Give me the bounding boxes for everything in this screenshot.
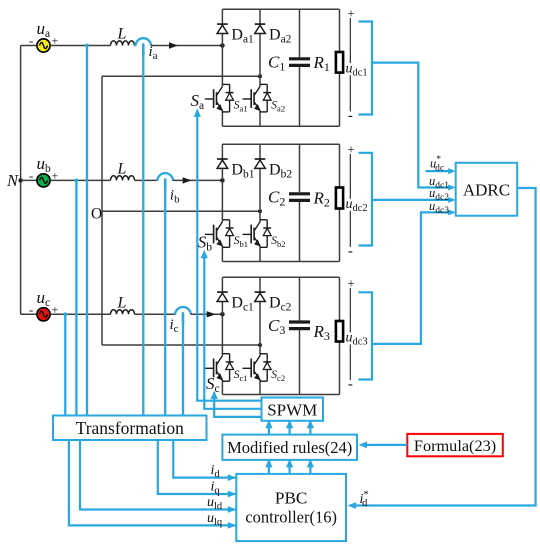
current sensor ia <box>135 38 151 53</box>
node O junction bridge c <box>258 343 262 347</box>
arrow ic into Transformation <box>179 415 186 424</box>
wire source ub left lead <box>21 179 37 181</box>
wire ua measurement to Transformation <box>86 46 88 415</box>
node phase c to leg junction <box>220 312 225 317</box>
wire uc measurement to Transformation <box>64 314 66 414</box>
wire PBC to Modified rules <box>268 460 270 474</box>
bridge 1 top rail <box>222 8 339 10</box>
arrow gate Sa <box>194 108 201 117</box>
wire PBC to Modified rules <box>289 460 291 474</box>
wire Modified rules to SPWM <box>309 421 311 434</box>
svg-text:Formula(23): Formula(23) <box>414 436 496 455</box>
arrow id into PBC <box>228 474 237 481</box>
wire source ua left lead <box>21 45 37 47</box>
node O junction bridge b <box>258 209 262 213</box>
arrow u*dc into ADRC <box>448 168 456 174</box>
wire udc2 to ADRC <box>372 199 449 201</box>
arrow udc3 into ADRC <box>448 209 456 215</box>
wire udc3 to ADRC <box>372 212 449 344</box>
arrow ulq into PBC <box>228 522 237 529</box>
node ub voltage tap <box>75 179 79 183</box>
current sensor ib <box>157 173 173 188</box>
svg-text:L: L <box>117 294 127 311</box>
wire udc1 to ADRC <box>372 63 449 188</box>
svg-text:Modified rules(24): Modified rules(24) <box>227 438 352 457</box>
wire source ub to inductor <box>50 179 110 181</box>
arrow iq into PBC <box>228 491 237 498</box>
freewheel diode of Sb2 <box>260 220 271 248</box>
transistor Sc2 <box>243 356 261 381</box>
wire O to bridge c leg2 <box>102 344 260 346</box>
svg-text:ADRC: ADRC <box>463 180 510 199</box>
block SPWM <box>262 398 324 421</box>
AC source ub <box>37 174 50 187</box>
arrow i*d into PBC <box>348 502 357 509</box>
arrow phase b current direction <box>183 177 192 183</box>
wire O to bridge a leg2 <box>102 75 260 77</box>
svg-text:+: + <box>347 5 354 20</box>
svg-text:L: L <box>117 160 127 177</box>
freewheel diode of Sa2 <box>260 84 271 112</box>
wire id from Transformation to PBC <box>173 440 235 478</box>
wire ib measurement to Transformation <box>164 186 166 414</box>
arrow ia into Transformation <box>140 415 147 424</box>
wire ulq from Transformation to PBC <box>69 440 235 525</box>
arrow into SPWM <box>265 420 272 429</box>
capacitor C1 branch wires <box>299 9 301 57</box>
svg-text:+: + <box>347 141 354 156</box>
capacitor C2 <box>289 194 310 201</box>
wire SPWM gate drive Sc <box>214 398 261 417</box>
wire ADRC output i*d to PBC <box>354 188 536 506</box>
wire SPWM gate drive Sb <box>204 257 261 409</box>
AC source uc <box>37 308 50 321</box>
wire N vertical bus <box>20 46 22 315</box>
arrow into Modified rules <box>265 459 272 468</box>
bracket udc1 sense <box>359 22 373 115</box>
wire uld from Transformation to PBC <box>80 440 235 510</box>
wire Modified rules to SPWM <box>268 421 270 434</box>
block Formula(23) <box>407 434 503 456</box>
svg-text:controller(16): controller(16) <box>245 508 337 527</box>
wire iq from Transformation to PBC <box>158 440 236 494</box>
node ua voltage tap <box>85 44 89 48</box>
arrow into SPWM <box>307 420 314 429</box>
svg-text:-: - <box>29 168 33 183</box>
arrow udc2 into ADRC <box>448 197 456 203</box>
svg-text:SPWM: SPWM <box>267 400 317 419</box>
node uc voltage tap <box>63 312 67 316</box>
AC source ua <box>37 39 50 52</box>
resistor R2 <box>336 188 343 209</box>
wire source uc left lead <box>21 313 37 315</box>
arrow into SPWM <box>286 420 293 429</box>
wire ia to bridge leg <box>151 45 222 47</box>
wire source ua to inductor <box>50 45 110 47</box>
block ADRC <box>456 163 518 216</box>
freewheel diode of Sc2 <box>260 354 271 382</box>
bridge 3 leg1 wire segments <box>221 277 223 292</box>
wire ic to bridge leg <box>191 313 223 315</box>
transistor Sb2 <box>243 222 261 247</box>
svg-text:-: - <box>348 377 353 393</box>
capacitor C3 <box>289 322 310 329</box>
freewheel diode of Sb1 <box>222 220 233 248</box>
wire ib to bridge leg <box>173 179 222 181</box>
bridge 1 bottom rail <box>222 125 339 127</box>
bracket udc2 sense <box>359 153 373 246</box>
svg-text:Transformation: Transformation <box>76 418 184 438</box>
wire source uc to inductor <box>50 313 110 315</box>
diode Da2 <box>255 24 266 33</box>
capacitor C3 branch wires <box>299 277 301 320</box>
bridge 1 leg1 wire segments <box>221 9 223 24</box>
bridge 1 leg2 wire segments <box>259 9 261 24</box>
svg-text:+: + <box>347 275 354 290</box>
bridge 3 leg2 wire segments <box>259 277 261 292</box>
node O junction bridge a <box>258 74 262 78</box>
block PBC controller(16) <box>236 474 346 541</box>
bridge 3 top rail <box>222 276 339 278</box>
node phase b to leg junction <box>220 178 225 183</box>
arrow ib into Transformation <box>162 415 169 424</box>
bracket udc3 sense <box>359 292 373 379</box>
arrow gate Sc <box>211 391 218 400</box>
arrow into Modified rules <box>307 459 314 468</box>
svg-text:-: - <box>29 33 33 48</box>
resistor R3 <box>336 321 343 342</box>
wire O vertical bus <box>101 76 103 345</box>
transistor Sa2 <box>243 87 261 112</box>
bridge 2 leg2 wire segments <box>259 144 261 159</box>
diode Db2 <box>255 159 266 168</box>
arrow into Modified rules <box>286 459 293 468</box>
arrow gate Sb <box>201 250 208 258</box>
bridge 2 leg1 wire segments <box>221 144 223 159</box>
voltage sense line udc1 <box>349 18 351 63</box>
wire Modified rules to SPWM <box>289 421 291 434</box>
wire SPWM gate drive Sa <box>197 115 261 400</box>
svg-text:L: L <box>117 26 127 43</box>
svg-text:N: N <box>6 171 19 190</box>
svg-text:PBC: PBC <box>275 489 308 508</box>
freewheel diode of Sa1 <box>222 84 233 112</box>
transistor Sa1 <box>205 87 223 112</box>
arrow phase c current direction <box>207 311 216 317</box>
capacitor C1 <box>289 59 310 66</box>
diode Dc2 <box>255 292 266 301</box>
wire PBC to Modified rules <box>309 460 311 474</box>
arrow udc1 into ADRC <box>448 185 456 191</box>
diode Da1 <box>217 24 228 33</box>
transistor Sc1 <box>205 356 223 381</box>
block Transformation <box>53 416 207 441</box>
freewheel diode of Sc1 <box>222 354 233 382</box>
wire O to bridge b leg2 <box>102 210 260 212</box>
resistor R1 <box>336 52 343 73</box>
resistor R3 branch wires <box>339 277 341 321</box>
bridge 2 top rail <box>222 143 339 145</box>
block Modified rules(24) <box>222 435 357 460</box>
wire ub measurement to Transformation <box>75 180 77 414</box>
arrow uc into Transformation <box>62 415 69 424</box>
wire inductor to current sensor ic <box>135 313 176 315</box>
current sensor ic <box>175 307 191 322</box>
arrow uld into PBC <box>228 506 237 513</box>
svg-text:i*d: i*d <box>360 490 369 510</box>
wire inductor to current sensor ib <box>135 179 158 181</box>
inductor L phase a <box>111 41 135 46</box>
node phase a to leg junction <box>220 43 225 48</box>
svg-text:-: - <box>29 302 33 317</box>
inductor L phase c <box>111 310 135 315</box>
node N junction phase b <box>18 178 22 182</box>
arrow into Modified rules right <box>359 442 368 449</box>
svg-text:-: - <box>348 244 353 260</box>
wire inductor to current sensor ia <box>134 45 137 47</box>
wire reference u*dc into ADRC <box>426 170 449 172</box>
resistor R2 branch wires <box>339 144 341 187</box>
arrow ua into Transformation <box>83 415 90 424</box>
wire ia measurement to Transformation <box>142 52 144 415</box>
wire Formula to Modified rules <box>365 444 407 446</box>
svg-text:O: O <box>91 206 102 223</box>
voltage sense line udc2 <box>349 154 351 199</box>
transistor Sb1 <box>205 222 223 247</box>
resistor R1 branch wires <box>339 9 341 52</box>
bridge 2 bottom rail <box>222 261 339 263</box>
diode Db1 <box>217 159 228 168</box>
voltage sense line udc3 <box>349 288 351 332</box>
bridge 3 bottom rail <box>222 394 339 396</box>
inductor L phase b <box>111 176 135 181</box>
arrow phase a current direction <box>169 42 178 48</box>
diode Dc1 <box>217 292 228 301</box>
arrow ub into Transformation <box>73 415 80 424</box>
capacitor C2 branch wires <box>299 144 301 192</box>
svg-text:-: - <box>348 108 353 124</box>
wire ic measurement to Transformation <box>182 320 184 414</box>
